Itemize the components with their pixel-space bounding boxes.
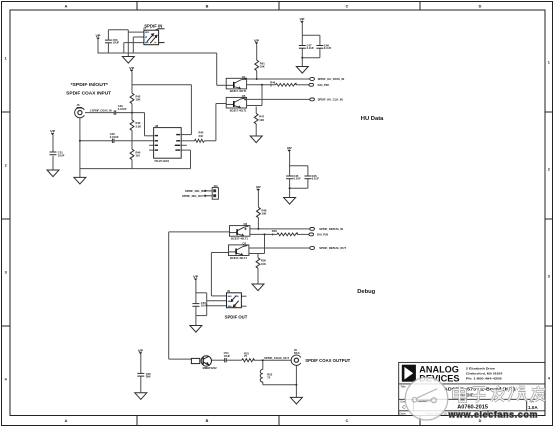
svg-text:DAI_P20: DAI_P20 bbox=[317, 233, 329, 237]
svg-text:Debug: Debug bbox=[357, 289, 375, 295]
svg-text:www.elecfans.com: www.elecfans.com bbox=[448, 410, 539, 420]
svg-text:SPDIF_DIG_IN: SPDIF_DIG_IN bbox=[185, 189, 204, 193]
svg-text:RCA: RCA bbox=[77, 106, 83, 110]
svg-text:1: 1 bbox=[5, 57, 7, 61]
svg-text:10K: 10K bbox=[260, 65, 265, 69]
svg-text:Date:: Date: bbox=[399, 411, 406, 415]
svg-text:110: 110 bbox=[136, 154, 141, 158]
svg-text:SPDIF_DEBUG_OUT: SPDIF_DEBUG_OUT bbox=[319, 246, 346, 250]
svg-text:Ph: 1-800-494-4258: Ph: 1-800-494-4258 bbox=[466, 376, 502, 380]
svg-text:2: 2 bbox=[548, 168, 550, 172]
svg-text:Q4: Q4 bbox=[242, 75, 246, 79]
svg-text:A: A bbox=[65, 419, 68, 423]
svg-text:10UF: 10UF bbox=[201, 304, 208, 308]
svg-text:0.01UF: 0.01UF bbox=[118, 107, 127, 111]
svg-text:SPDIF_HU_CLK_IN: SPDIF_HU_CLK_IN bbox=[318, 98, 343, 102]
svg-text:A: A bbox=[65, 4, 68, 8]
svg-text:B: B bbox=[206, 4, 209, 8]
svg-text:SPDIF IN: SPDIF IN bbox=[144, 24, 163, 29]
svg-text:SPDIF_DIG_OUT: SPDIF_DIG_OUT bbox=[182, 194, 204, 198]
svg-text:B: B bbox=[206, 419, 209, 423]
svg-text:C: C bbox=[346, 419, 349, 423]
svg-text:1: 1 bbox=[548, 61, 550, 65]
svg-text:U8: U8 bbox=[155, 124, 159, 128]
svg-text:DNI: DNI bbox=[146, 375, 151, 379]
svg-text:0.1UF: 0.1UF bbox=[307, 46, 315, 50]
svg-text:J10: J10 bbox=[213, 184, 218, 188]
svg-text:75: 75 bbox=[244, 354, 247, 358]
svg-text:Q5: Q5 bbox=[242, 94, 246, 98]
svg-text:SPDIF COAX OUTPUT: SPDIF COAX OUTPUT bbox=[305, 358, 350, 363]
svg-text:MMBT2222: MMBT2222 bbox=[203, 366, 218, 370]
svg-text:SPDIF_COAX_OUT: SPDIF_COAX_OUT bbox=[264, 356, 289, 360]
svg-text:10K: 10K bbox=[136, 98, 141, 102]
svg-text:10K: 10K bbox=[261, 262, 266, 266]
svg-text:0.1UF: 0.1UF bbox=[324, 46, 332, 50]
svg-text:10UF: 10UF bbox=[113, 41, 120, 45]
svg-text:Q6: Q6 bbox=[244, 222, 248, 226]
svg-text:1 SPDIF_COAX_IN: 1 SPDIF_COAX_IN bbox=[90, 110, 112, 113]
svg-text:D: D bbox=[479, 4, 482, 8]
svg-text:Chelmsford, MA 01824: Chelmsford, MA 01824 bbox=[466, 371, 503, 375]
svg-text:SPDIF OUT: SPDIF OUT bbox=[225, 314, 248, 319]
svg-text:*SPDIF IN/OUT*: *SPDIF IN/OUT* bbox=[71, 82, 109, 87]
svg-text:Q7: Q7 bbox=[243, 241, 247, 245]
svg-text:0.1UF: 0.1UF bbox=[312, 177, 320, 181]
svg-text:240: 240 bbox=[199, 134, 204, 138]
svg-text:SPDIF_DEBUG_IN: SPDIF_DEBUG_IN bbox=[319, 227, 343, 231]
svg-text:10UF: 10UF bbox=[58, 153, 65, 157]
svg-text:BC817-40LT1: BC817-40LT1 bbox=[230, 109, 247, 113]
svg-text:DAI_P08: DAI_P08 bbox=[318, 83, 330, 87]
svg-text:HU Data: HU Data bbox=[361, 116, 384, 122]
svg-text:0.1UF: 0.1UF bbox=[294, 177, 302, 181]
svg-text:10UF: 10UF bbox=[224, 354, 231, 358]
svg-text:0.01UF: 0.01UF bbox=[110, 135, 119, 139]
svg-text:RCA: RCA bbox=[294, 351, 300, 355]
svg-text:3: 3 bbox=[548, 275, 550, 279]
svg-text:BC817-40LT1: BC817-40LT1 bbox=[230, 89, 247, 93]
svg-text:2: 2 bbox=[5, 164, 7, 168]
svg-text:3.3K: 3.3K bbox=[136, 124, 142, 128]
svg-text:SPDIF_HU_DATA_IN: SPDIF_HU_DATA_IN bbox=[318, 77, 345, 81]
svg-text:2 Elizabeth Drive: 2 Elizabeth Drive bbox=[466, 366, 495, 370]
svg-text:75: 75 bbox=[267, 376, 270, 380]
svg-text:3: 3 bbox=[5, 271, 7, 275]
svg-text:74LVC1G04: 74LVC1G04 bbox=[154, 159, 169, 163]
svg-text:BC817-40LT1: BC817-40LT1 bbox=[231, 237, 248, 241]
svg-text:BC817-40LT1: BC817-40LT1 bbox=[230, 256, 247, 260]
svg-text:10K: 10K bbox=[259, 118, 264, 122]
svg-text:4: 4 bbox=[548, 377, 551, 381]
svg-text:10K: 10K bbox=[262, 212, 267, 216]
svg-text:SPDIF COAX INPUT: SPDIF COAX INPUT bbox=[66, 90, 111, 95]
svg-text:Title: Title bbox=[400, 384, 406, 388]
svg-text:4: 4 bbox=[5, 378, 8, 382]
svg-text:C: C bbox=[346, 4, 349, 8]
svg-text:elecfans: elecfans bbox=[419, 401, 427, 403]
